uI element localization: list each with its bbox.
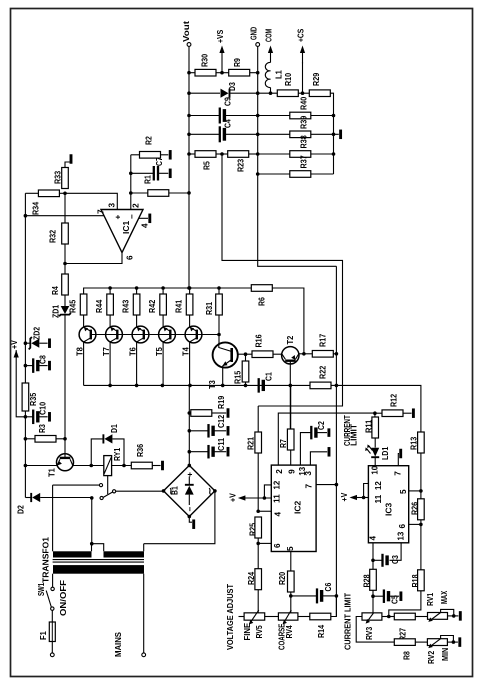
- svg-text:C2: C2: [317, 421, 326, 430]
- resistor R26: [420, 491, 422, 499]
- wire row C4 to R39: [258, 133, 290, 135]
- resistor R4: [64, 264, 66, 275]
- bridge rectifier B1: [164, 465, 215, 516]
- wire D2 node down to transformer tap: [91, 498, 93, 544]
- inductor L1: [265, 62, 270, 87]
- terminal mains left: [50, 653, 54, 657]
- svg-text:T8: T8: [76, 347, 85, 356]
- svg-text:D3: D3: [228, 82, 237, 91]
- svg-text:−: −: [127, 214, 136, 219]
- svg-text:T4: T4: [182, 347, 191, 356]
- switch SW1: [51, 587, 54, 590]
- svg-text:13: 13: [396, 531, 405, 540]
- wire Vout rail: [188, 46, 190, 288]
- svg-text:ZD2: ZD2: [32, 326, 41, 340]
- svg-text:COM: COM: [264, 29, 273, 42]
- resistor R37: [290, 171, 311, 178]
- svg-text:+V: +V: [10, 340, 19, 349]
- svg-text:R8: R8: [402, 651, 411, 660]
- svg-text:R19: R19: [217, 395, 226, 409]
- transistor T2: [282, 347, 299, 364]
- wire B1 plus rail up: [188, 385, 190, 465]
- zener ZD1: [64, 295, 66, 306]
- svg-text:R14: R14: [317, 624, 326, 638]
- svg-text:R30: R30: [200, 53, 209, 67]
- svg-text:T3: T3: [208, 380, 217, 389]
- supply arrow +VS: [221, 52, 223, 73]
- resistor R20: [288, 571, 295, 592]
- svg-text:R29: R29: [312, 72, 321, 86]
- diode D2: [25, 497, 30, 499]
- svg-text:+: +: [185, 472, 194, 477]
- supply arrow +V main: [15, 350, 17, 356]
- resistor R31: [218, 288, 220, 294]
- wire RV4 to R14: [298, 616, 310, 618]
- svg-text:R31: R31: [205, 301, 214, 315]
- svg-text:R24: R24: [247, 571, 256, 585]
- wire primary right down: [143, 574, 145, 653]
- transistor T1: [57, 454, 74, 471]
- wire row C9 to R40: [258, 115, 290, 117]
- wire T1 collector to relay: [73, 465, 104, 467]
- diode D1: [91, 439, 103, 466]
- svg-text:4: 4: [368, 536, 377, 541]
- svg-text:R7: R7: [279, 439, 288, 448]
- svg-text:R41: R41: [174, 299, 183, 313]
- wire B1 minus to ground: [189, 517, 192, 523]
- potentiometer RV1 MAX: [428, 613, 448, 620]
- resistor R10: [277, 90, 298, 97]
- svg-text:R40: R40: [300, 96, 309, 110]
- wire row F: [258, 173, 290, 175]
- wire IC2 pin12 bracket: [264, 485, 271, 498]
- svg-text:C3: C3: [391, 555, 400, 564]
- wire IC3 pin11 +V: [356, 497, 369, 499]
- svg-text:L1: L1: [274, 70, 283, 79]
- svg-text:MAINS: MAINS: [114, 631, 123, 657]
- wire IC3 pin7 ground: [397, 454, 400, 466]
- resistor R43: [136, 288, 138, 294]
- svg-text:12: 12: [374, 481, 383, 490]
- wire IC2 pin5: [290, 552, 292, 572]
- svg-text:R34: R34: [31, 201, 40, 215]
- svg-text:T7: T7: [102, 347, 111, 356]
- svg-text:RV2: RV2: [427, 650, 436, 664]
- wire RY1 to R36: [112, 465, 132, 467]
- terminal Vout: [187, 43, 191, 47]
- svg-text:C1: C1: [264, 372, 273, 381]
- resistor R22: [310, 382, 331, 389]
- resistor R24: [255, 569, 262, 590]
- svg-text:CURRENT LIMIT: CURRENT LIMIT: [343, 593, 352, 650]
- svg-text:IC3: IC3: [385, 502, 394, 516]
- wire primary left to switch: [52, 574, 54, 587]
- svg-text:R17: R17: [318, 333, 327, 347]
- resistor R19: [189, 412, 191, 414]
- resistor R30: [189, 72, 195, 74]
- capacitor C4: [189, 133, 220, 135]
- resistor R5: [189, 153, 195, 155]
- svg-text:9: 9: [287, 469, 296, 474]
- svg-text:7: 7: [96, 209, 105, 214]
- svg-text:C11: C11: [217, 437, 226, 451]
- svg-text:R32: R32: [48, 229, 57, 243]
- svg-text:C7: C7: [155, 157, 164, 166]
- wire IC2 pin6: [258, 542, 271, 544]
- svg-text:3: 3: [107, 203, 116, 208]
- wire IC2 pin13 to C2: [300, 433, 310, 466]
- transistor T5: [159, 326, 176, 343]
- potentiometer RV5 FINE: [244, 613, 265, 620]
- resistor R29: [309, 90, 330, 97]
- capacitor C1: [258, 378, 260, 393]
- relay contact upper throw: [99, 484, 102, 487]
- svg-text:2: 2: [275, 469, 284, 474]
- supply arrow COM: [270, 52, 272, 63]
- resistor R8: [394, 639, 415, 646]
- resistor R35: [22, 383, 29, 411]
- transformer core: [53, 559, 144, 561]
- svg-text:R38: R38: [300, 135, 309, 149]
- svg-text:R10: R10: [284, 72, 293, 86]
- resistor R9: [222, 72, 229, 74]
- svg-text:R37: R37: [300, 155, 309, 169]
- wire IC2 pin3 to ground: [310, 452, 327, 465]
- svg-text:SW1: SW1: [37, 582, 46, 596]
- transistor T8: [79, 326, 96, 343]
- svg-text:R1: R1: [143, 175, 152, 184]
- svg-text:+CS: +CS: [296, 28, 305, 42]
- pin 7 wire: [25, 215, 103, 217]
- wire feedback column: [130, 155, 132, 210]
- wire row E to R38: [258, 153, 290, 155]
- svg-text:C8: C8: [38, 355, 47, 364]
- capacitor C6: [291, 595, 317, 597]
- svg-text:R21: R21: [246, 436, 255, 450]
- capacitor C2: [310, 426, 312, 440]
- svg-text:IC2: IC2: [293, 500, 302, 514]
- svg-text:VOLTAGE ADJUST: VOLTAGE ADJUST: [226, 584, 235, 650]
- wire gnd net pin7 IC2: [316, 484, 336, 486]
- svg-text:R4: R4: [51, 286, 60, 295]
- resistor R25: [255, 517, 262, 538]
- svg-text:ZD1: ZD1: [51, 304, 60, 318]
- resistor R1: [131, 192, 148, 194]
- svg-text:6: 6: [125, 255, 134, 260]
- svg-text:RY1: RY1: [113, 447, 122, 461]
- wire gnd net to right side: [335, 266, 337, 616]
- op-amp block IC3: [368, 466, 408, 543]
- resistor R21: [257, 406, 259, 432]
- resistor R32: [64, 193, 66, 223]
- svg-text:C12: C12: [217, 414, 226, 428]
- potentiometer RV4 COARSE: [278, 613, 298, 620]
- terminal GND: [256, 43, 260, 47]
- svg-text:T5: T5: [155, 347, 164, 356]
- wire R22 node to R13 top: [336, 385, 421, 432]
- transistor T4: [185, 326, 202, 343]
- svg-text:LIMIT: LIMIT: [350, 424, 359, 446]
- wire IC2 pin2: [278, 413, 375, 465]
- svg-text:R22: R22: [318, 365, 327, 379]
- wire IC3 pin5: [409, 490, 421, 492]
- resistor R18: [418, 570, 425, 591]
- wire pin3 net: [65, 193, 117, 209]
- resistor R11: [373, 411, 377, 415]
- svg-text:R39: R39: [300, 115, 309, 129]
- relay coil RY1: [104, 456, 112, 476]
- wire IC3 pin6: [409, 523, 421, 525]
- resistor R2: [131, 154, 140, 156]
- svg-text:ON/OFF: ON/OFF: [59, 580, 68, 616]
- terminal mains right: [142, 653, 146, 657]
- svg-text:D2: D2: [16, 505, 25, 514]
- svg-text:C10: C10: [38, 401, 47, 415]
- wire T1 emitter to rail: [24, 464, 28, 468]
- op-amp IC1: [101, 210, 143, 253]
- svg-text:10: 10: [371, 465, 380, 474]
- capacitor C5: [373, 595, 383, 597]
- resistor R40: [290, 112, 311, 119]
- node R5/R23 tap: [220, 152, 224, 156]
- resistor R12: [375, 412, 382, 414]
- svg-text:7: 7: [394, 471, 403, 476]
- svg-text:R6: R6: [257, 297, 266, 306]
- wire RV3 right to R27: [382, 616, 394, 618]
- zener ZD2: [24, 341, 28, 345]
- svg-text:5: 5: [399, 489, 408, 494]
- svg-text:MAX: MAX: [440, 590, 449, 604]
- node R33/R34/pin3: [63, 192, 67, 196]
- transformer primary winding: [53, 565, 144, 574]
- resistor R6: [251, 285, 272, 292]
- transformer TRANSFO1 secondary winding: [53, 551, 92, 557]
- svg-text:GND: GND: [249, 27, 258, 40]
- resistor R13: [418, 432, 425, 453]
- svg-text:C6: C6: [324, 582, 333, 591]
- svg-text:R42: R42: [148, 299, 157, 313]
- svg-text:R44: R44: [95, 299, 104, 313]
- svg-text:2: 2: [131, 203, 140, 208]
- svg-text:D1: D1: [110, 424, 119, 433]
- svg-text:TRANSFO1: TRANSFO1: [41, 537, 50, 583]
- op-amp block IC2: [271, 465, 316, 551]
- relay contact lower throw: [100, 496, 103, 499]
- resistor R36: [131, 462, 152, 469]
- resistor R27: [394, 613, 415, 620]
- svg-text:R5: R5: [202, 161, 211, 170]
- wire IC2 pin4: [258, 510, 271, 512]
- ground at C7: [169, 169, 172, 179]
- supply arrow +CS: [302, 52, 304, 64]
- resistor R38: [290, 151, 311, 158]
- svg-text:R25: R25: [248, 522, 257, 536]
- svg-text:5: 5: [286, 546, 295, 551]
- relay contact arm: [113, 490, 116, 493]
- fuse F1: [51, 610, 53, 622]
- svg-text:RV1: RV1: [426, 592, 435, 606]
- transistor T7: [106, 326, 123, 343]
- resistor R45: [80, 294, 87, 315]
- svg-text:IC1: IC1: [122, 220, 131, 234]
- svg-text:F1: F1: [39, 631, 48, 640]
- svg-text:FINE: FINE: [243, 622, 252, 640]
- capacitor C12: [189, 430, 208, 432]
- svg-text:RV4: RV4: [285, 625, 294, 639]
- capacitor C10: [25, 416, 33, 418]
- transistor T6: [132, 326, 149, 343]
- svg-text:R9: R9: [233, 58, 242, 67]
- svg-text:R3: R3: [38, 424, 47, 433]
- resistor R42: [162, 288, 164, 294]
- relay actuator link: [107, 476, 109, 495]
- svg-text:6: 6: [398, 524, 407, 529]
- wire row B to R10: [258, 92, 277, 94]
- resistor R16: [246, 353, 253, 355]
- svg-text:C4: C4: [224, 119, 233, 128]
- wire emitter bus row 288: [84, 288, 252, 294]
- ground above R33: [65, 162, 70, 168]
- svg-text:RV5: RV5: [255, 625, 264, 639]
- junction dots collector rail: [108, 384, 112, 388]
- svg-text:R43: R43: [121, 299, 130, 313]
- svg-text:+V: +V: [229, 493, 238, 502]
- wire RV5 to RV4: [265, 616, 279, 618]
- svg-text:R12: R12: [390, 393, 399, 407]
- wire upper throw to secondary left: [52, 485, 54, 551]
- capacitor C11: [189, 451, 208, 453]
- svg-text:4: 4: [273, 512, 282, 517]
- svg-text:R28: R28: [362, 574, 371, 588]
- transistor T3: [213, 342, 238, 367]
- svg-text:RV3: RV3: [365, 626, 374, 640]
- svg-text:T6: T6: [129, 347, 138, 356]
- resistor R15: [245, 354, 247, 361]
- capacitor C3: [373, 559, 382, 561]
- svg-text:R15: R15: [233, 370, 242, 384]
- svg-text:R11: R11: [364, 419, 373, 433]
- svg-text:12: 12: [272, 480, 281, 489]
- svg-text:R18: R18: [411, 574, 420, 588]
- pin 4 wire and ground: [139, 217, 148, 219]
- svg-text:11: 11: [374, 494, 383, 503]
- svg-text:R16: R16: [254, 334, 263, 348]
- svg-text:+: +: [113, 215, 122, 220]
- svg-text:R35: R35: [29, 392, 38, 406]
- svg-text:MIN: MIN: [441, 648, 450, 661]
- svg-text:−: −: [185, 507, 194, 512]
- resistor R33: [62, 168, 69, 189]
- left rail from R34: [24, 193, 26, 497]
- svg-text:T1: T1: [47, 468, 56, 477]
- potentiometer RV3: [362, 613, 382, 620]
- svg-text:C9: C9: [224, 97, 233, 106]
- resistor R17: [304, 353, 312, 355]
- svg-text:R45: R45: [68, 299, 77, 313]
- resistor R39: [290, 131, 311, 138]
- svg-text:7: 7: [304, 484, 313, 489]
- svg-text:R13: R13: [409, 436, 418, 450]
- LED LD1: [371, 448, 379, 457]
- svg-text:R2: R2: [144, 136, 153, 145]
- potentiometer RV2 MIN: [427, 639, 447, 646]
- pin 6 wire: [65, 253, 122, 264]
- wire pin6 node to R18: [420, 524, 422, 569]
- svg-text:11: 11: [272, 494, 281, 503]
- wire B1 ac right to transformer: [213, 489, 217, 493]
- capacitor C7: [131, 172, 153, 174]
- wire base bus: [91, 334, 219, 336]
- resistor R34: [25, 192, 38, 194]
- resistor R14: [310, 613, 331, 620]
- svg-text:+VS: +VS: [216, 29, 225, 43]
- svg-text:LD1: LD1: [381, 446, 390, 460]
- capacitor C8: [24, 364, 28, 368]
- wire RV3 left loop to R8: [356, 617, 394, 643]
- svg-text:R20: R20: [278, 571, 287, 585]
- svg-text:R23: R23: [236, 158, 245, 172]
- ground at R39 node: [334, 133, 339, 135]
- resistor R44: [109, 288, 111, 294]
- wire T2 emitter to R7: [289, 385, 291, 429]
- svg-text:+V: +V: [340, 492, 349, 501]
- svg-text:R33: R33: [53, 170, 62, 184]
- svg-text:3: 3: [304, 471, 313, 476]
- svg-text:B1: B1: [170, 486, 179, 495]
- svg-text:4: 4: [140, 223, 149, 228]
- resistor R28: [370, 569, 377, 590]
- svg-text:R26: R26: [410, 501, 419, 515]
- wire output divider tap to R21: [222, 154, 343, 406]
- resistor R3: [24, 437, 28, 441]
- ground at R2: [169, 150, 172, 160]
- wire IC2 pin11 +V: [244, 497, 271, 499]
- wire collector rail: [84, 384, 310, 386]
- capacitor C9: [189, 115, 220, 117]
- resistor R7: [287, 429, 294, 450]
- wire secondary right up: [143, 544, 145, 552]
- resistor R23: [216, 153, 228, 155]
- wire arm to bridge: [116, 490, 164, 492]
- wire IC3 pin13 to C3: [390, 543, 402, 561]
- resistor R41: [189, 288, 191, 294]
- wire GND rail: [258, 46, 337, 266]
- svg-text:T2: T2: [286, 335, 295, 344]
- svg-text:R36: R36: [136, 443, 145, 457]
- svg-text:C5: C5: [391, 595, 400, 604]
- svg-text:Vout: Vout: [182, 21, 191, 42]
- svg-text:6: 6: [273, 543, 282, 548]
- wire IC3 pin4: [372, 543, 374, 570]
- diode D3: [189, 92, 220, 94]
- wire IC2 pin9: [290, 450, 292, 465]
- wire IC3 pin12 bracket: [364, 484, 369, 498]
